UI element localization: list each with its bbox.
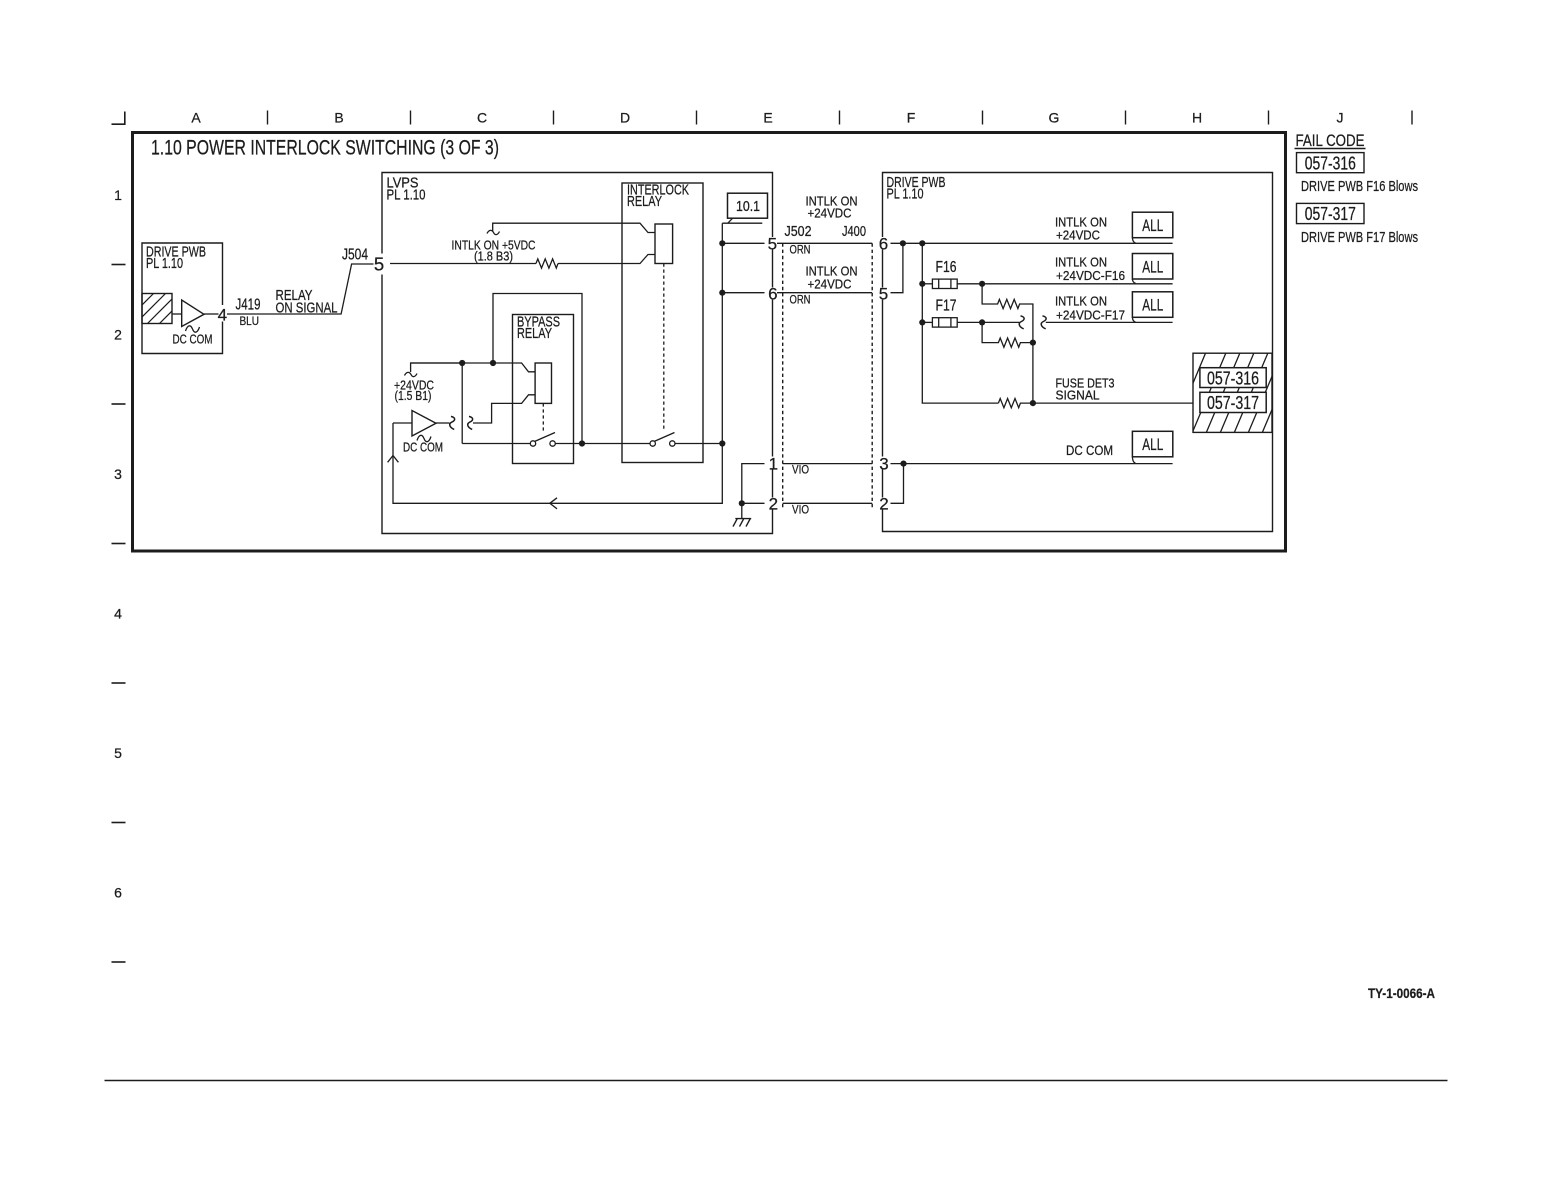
svg-text:6: 6 (879, 235, 888, 254)
svg-text:5: 5 (114, 745, 122, 761)
svg-text:+24VDC: +24VDC (1056, 228, 1100, 243)
svg-text:SIGNAL: SIGNAL (1056, 388, 1100, 403)
svg-text:DRIVE PWB F17 Blows: DRIVE PWB F17 Blows (1301, 229, 1418, 246)
svg-text:ORN: ORN (790, 293, 811, 307)
svg-text:J502: J502 (785, 224, 812, 240)
svg-text:5: 5 (879, 285, 888, 304)
svg-text:057-316: 057-316 (1305, 154, 1356, 174)
svg-text:A: A (191, 110, 201, 126)
svg-text:B: B (334, 110, 343, 126)
svg-text:D: D (620, 110, 630, 126)
svg-text:RELAY: RELAY (517, 326, 552, 342)
svg-text:PL 1.10: PL 1.10 (146, 256, 183, 272)
svg-text:DC COM: DC COM (1066, 443, 1113, 458)
svg-text:FAIL CODE: FAIL CODE (1296, 132, 1365, 150)
svg-text:6: 6 (768, 285, 777, 304)
svg-text:+24VDC-F17: +24VDC-F17 (1056, 308, 1125, 323)
svg-text:ORN: ORN (790, 243, 811, 257)
svg-text:BLU: BLU (240, 314, 260, 328)
svg-text:6: 6 (114, 885, 122, 901)
svg-text:10.1: 10.1 (736, 198, 760, 215)
svg-text:J: J (1337, 110, 1344, 126)
svg-text:E: E (763, 110, 772, 126)
svg-text:F16: F16 (936, 259, 957, 276)
svg-text:1: 1 (769, 455, 778, 474)
svg-text:VIO: VIO (792, 503, 809, 517)
svg-text:ALL: ALL (1142, 217, 1163, 235)
svg-text:1.10 POWER INTERLOCK SWITCHING: 1.10 POWER INTERLOCK SWITCHING (3 OF 3) (151, 137, 499, 160)
svg-text:DRIVE PWB F16 Blows: DRIVE PWB F16 Blows (1301, 178, 1418, 195)
svg-text:(1.5 B1): (1.5 B1) (395, 389, 432, 403)
svg-text:H: H (1192, 110, 1202, 126)
svg-text:057-317: 057-317 (1207, 393, 1259, 413)
svg-text:ALL: ALL (1142, 297, 1163, 315)
svg-text:2: 2 (879, 495, 888, 514)
svg-text:ALL: ALL (1142, 436, 1163, 454)
svg-text:2: 2 (114, 327, 122, 343)
svg-text:2: 2 (769, 495, 778, 514)
svg-text:057-316: 057-316 (1207, 369, 1259, 389)
svg-text:PL 1.10: PL 1.10 (387, 188, 426, 204)
svg-text:PL 1.10: PL 1.10 (887, 187, 924, 203)
svg-text:+24VDC: +24VDC (808, 206, 852, 221)
svg-text:3: 3 (114, 466, 122, 482)
svg-text:F: F (907, 110, 916, 126)
svg-text:VIO: VIO (792, 463, 809, 477)
svg-text:F17: F17 (936, 298, 957, 315)
svg-text:DC COM: DC COM (403, 441, 443, 455)
svg-text:+24VDC: +24VDC (808, 277, 852, 292)
svg-text:TY-1-0066-A: TY-1-0066-A (1368, 985, 1435, 1001)
svg-text:5: 5 (374, 254, 384, 275)
svg-text:ON SIGNAL: ON SIGNAL (276, 300, 338, 317)
svg-text:G: G (1049, 110, 1060, 126)
svg-text:3: 3 (879, 455, 888, 474)
svg-text:J419: J419 (236, 297, 261, 314)
svg-text:4: 4 (218, 306, 227, 325)
svg-text:DC COM: DC COM (173, 333, 213, 347)
svg-text:5: 5 (768, 235, 777, 254)
svg-text:(1.8 B3): (1.8 B3) (474, 250, 513, 264)
svg-text:+24VDC-F16: +24VDC-F16 (1056, 268, 1125, 283)
svg-text:057-317: 057-317 (1305, 204, 1356, 224)
svg-text:4: 4 (114, 606, 122, 622)
svg-text:RELAY: RELAY (627, 194, 662, 210)
svg-text:J400: J400 (842, 224, 866, 240)
svg-text:1: 1 (114, 187, 122, 203)
svg-text:ALL: ALL (1142, 258, 1163, 276)
svg-text:INTLK ON: INTLK ON (1055, 294, 1107, 309)
svg-text:C: C (477, 110, 487, 126)
svg-text:J504: J504 (342, 247, 368, 264)
